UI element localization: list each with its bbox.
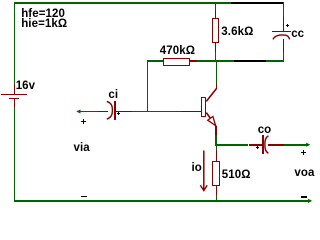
capacitor CC bottom lead red: [283, 39, 285, 52]
wire bias row black segment: [234, 60, 267, 62]
transistor Q1 collector diagonal: [206, 88, 216, 101]
wire feedback vertical (470k left to base): [147, 60, 149, 113]
wire collector green (bias row to transistor): [216, 62, 218, 83]
resistor R1 3.6k bottom lead red: [215, 43, 217, 52]
label io: [192, 163, 202, 175]
bottom wire arrowhead: [308, 199, 312, 203]
capacitor CI positive plate: [114, 101, 116, 120]
resistor R3 510 bottom lead green: [216, 195, 218, 200]
input wire arrowhead: [76, 109, 80, 113]
wire base red to transistor: [181, 111, 202, 113]
wire top left green segment (node VCC): [14, 2, 232, 4]
current arrow io head: [200, 185, 207, 190]
label 3.6k ohm: [221, 27, 253, 39]
current arrow io line: [203, 151, 205, 190]
label 510 ohm: [222, 170, 251, 182]
capacitor CC top lead red: [283, 17, 285, 31]
capacitor CC top lead green: [283, 2, 285, 17]
label 470k ohm: [160, 46, 195, 58]
resistor R1 3.6k top lead green: [215, 2, 217, 10]
capacitor CO curved plate: [265, 136, 269, 154]
transistor Q1 emitter arrowhead: [208, 116, 216, 125]
wire bottom (ground rail): [14, 200, 308, 202]
resistor R2 470k right lead red: [190, 60, 198, 62]
wire emitter red vertical: [215, 126, 217, 135]
transistor Q1 emitter diagonal: [206, 113, 216, 126]
transistor Q1 base bar: [201, 97, 206, 118]
label via: [74, 143, 90, 155]
resistor R1 3.6k bottom lead green: [215, 52, 217, 60]
capacitor CC curved plate: [273, 35, 290, 40]
battery V1 top lead: [14, 84, 16, 94]
wire input red to capacitor CI: [98, 111, 109, 113]
wire left lower (battery - to bottom): [14, 108, 16, 202]
battery V1 bottom lead: [14, 99, 16, 108]
resistor R3 510 top lead red: [216, 150, 218, 160]
parameter label hfe=120: [21, 9, 65, 21]
label ci: [108, 90, 118, 102]
wire bias row: 470k left lead green: [147, 60, 163, 62]
wire base green segment: [132, 111, 181, 113]
junction dot at 3.6k top lead: [214, 2, 217, 5]
wire output red to capacitor CO: [249, 144, 263, 146]
parameter label hie=1k ohm: [21, 19, 67, 31]
wire collector red: [216, 83, 218, 89]
label co: [258, 125, 272, 137]
label voa: [294, 168, 314, 180]
resistor R2 470k body: [163, 58, 190, 66]
resistor R1 3.6k body: [212, 18, 220, 43]
capacitor CI curved plate: [107, 101, 113, 119]
wire top right green segment: [263, 2, 285, 4]
capacitor CC positive plate: [272, 31, 292, 32]
label + (input port): [81, 121, 86, 122]
label 16v: [16, 81, 36, 93]
label cc: [291, 29, 304, 41]
wire output port green (voa +): [284, 144, 308, 146]
wire bias row right green segment: [266, 60, 284, 62]
capacitor CC bottom lead green: [283, 52, 285, 62]
wire emitter green vertical to output node: [215, 135, 217, 144]
capacitor CO plus sign: [256, 147, 259, 148]
wire output node green: [215, 144, 248, 146]
resistor R1 3.6k top lead red: [215, 10, 217, 18]
wire input port green (via +): [78, 111, 98, 113]
label - (output port): [301, 196, 307, 198]
resistor R3 510 bottom lead red: [216, 186, 218, 195]
wire top black segment: [231, 2, 263, 4]
battery V1 negative plate (short): [9, 98, 19, 100]
output wire arrowhead: [306, 143, 310, 147]
capacitor CC plus sign: [286, 25, 289, 26]
wire output red after CO: [268, 144, 284, 146]
wire bias row green segment: [197, 60, 234, 62]
wire left upper (battery + to top): [14, 2, 16, 84]
capacitor CO positive plate: [262, 135, 264, 153]
resistor R3 510 top lead green: [216, 146, 218, 151]
capacitor CI plus sign: [117, 113, 120, 114]
resistor R3 510 body: [212, 161, 220, 186]
label + (output port): [301, 152, 307, 154]
battery V1 positive plate (long): [1, 94, 27, 96]
wire base red from CI: [116, 111, 133, 113]
label - (input port): [81, 196, 87, 198]
